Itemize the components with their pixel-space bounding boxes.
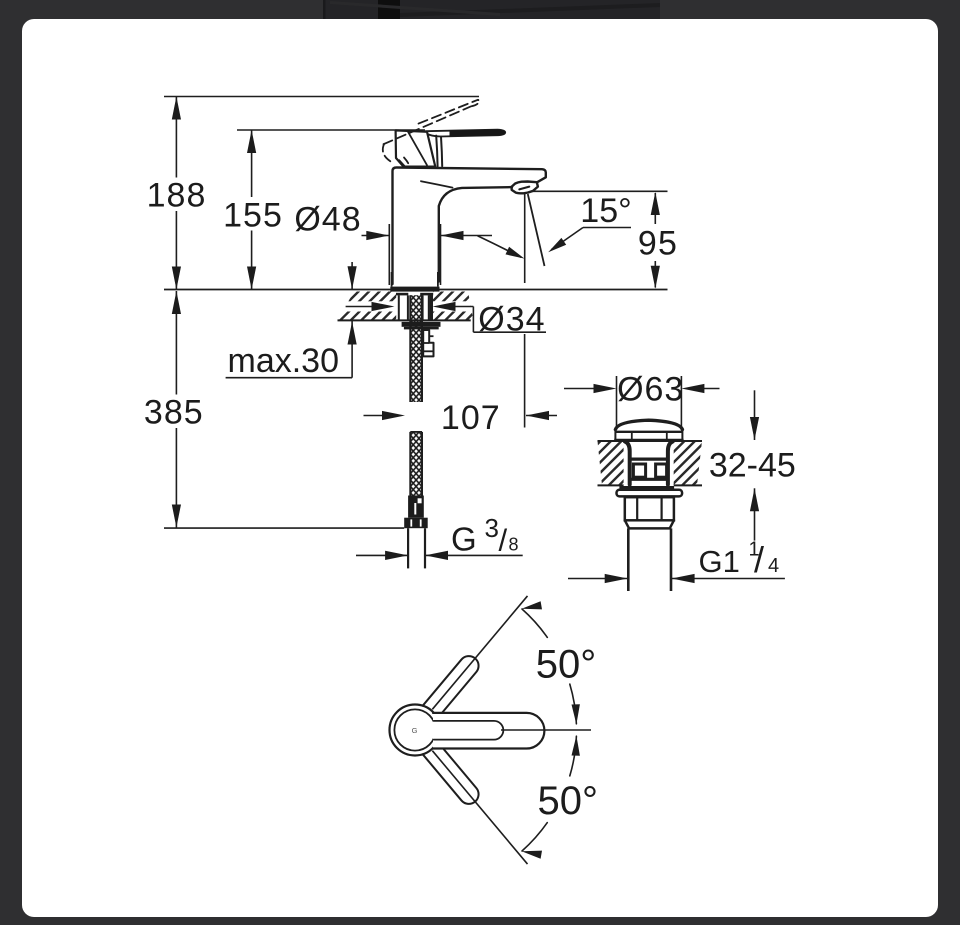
svg-text:G1: G1	[699, 544, 740, 579]
svg-text:15°: 15°	[580, 192, 631, 230]
svg-text:4: 4	[768, 555, 779, 577]
svg-text:Ø63: Ø63	[617, 371, 684, 409]
svg-text:G: G	[412, 726, 418, 735]
svg-text:155: 155	[223, 196, 283, 234]
svg-text:107: 107	[441, 399, 501, 437]
svg-text:3: 3	[485, 513, 499, 543]
svg-text:50°: 50°	[536, 643, 597, 687]
svg-text:385: 385	[144, 394, 204, 432]
svg-text:G: G	[451, 520, 477, 557]
svg-text:188: 188	[147, 177, 207, 215]
svg-text:/: /	[499, 523, 508, 558]
svg-text:Ø34: Ø34	[478, 301, 545, 339]
svg-text:50°: 50°	[538, 779, 599, 823]
svg-text:max.30: max.30	[228, 342, 340, 380]
svg-text:8: 8	[509, 535, 519, 555]
svg-text:Ø48: Ø48	[294, 201, 361, 239]
svg-text:/: /	[754, 539, 764, 580]
svg-text:32-45: 32-45	[709, 447, 796, 485]
svg-text:95: 95	[638, 225, 678, 263]
